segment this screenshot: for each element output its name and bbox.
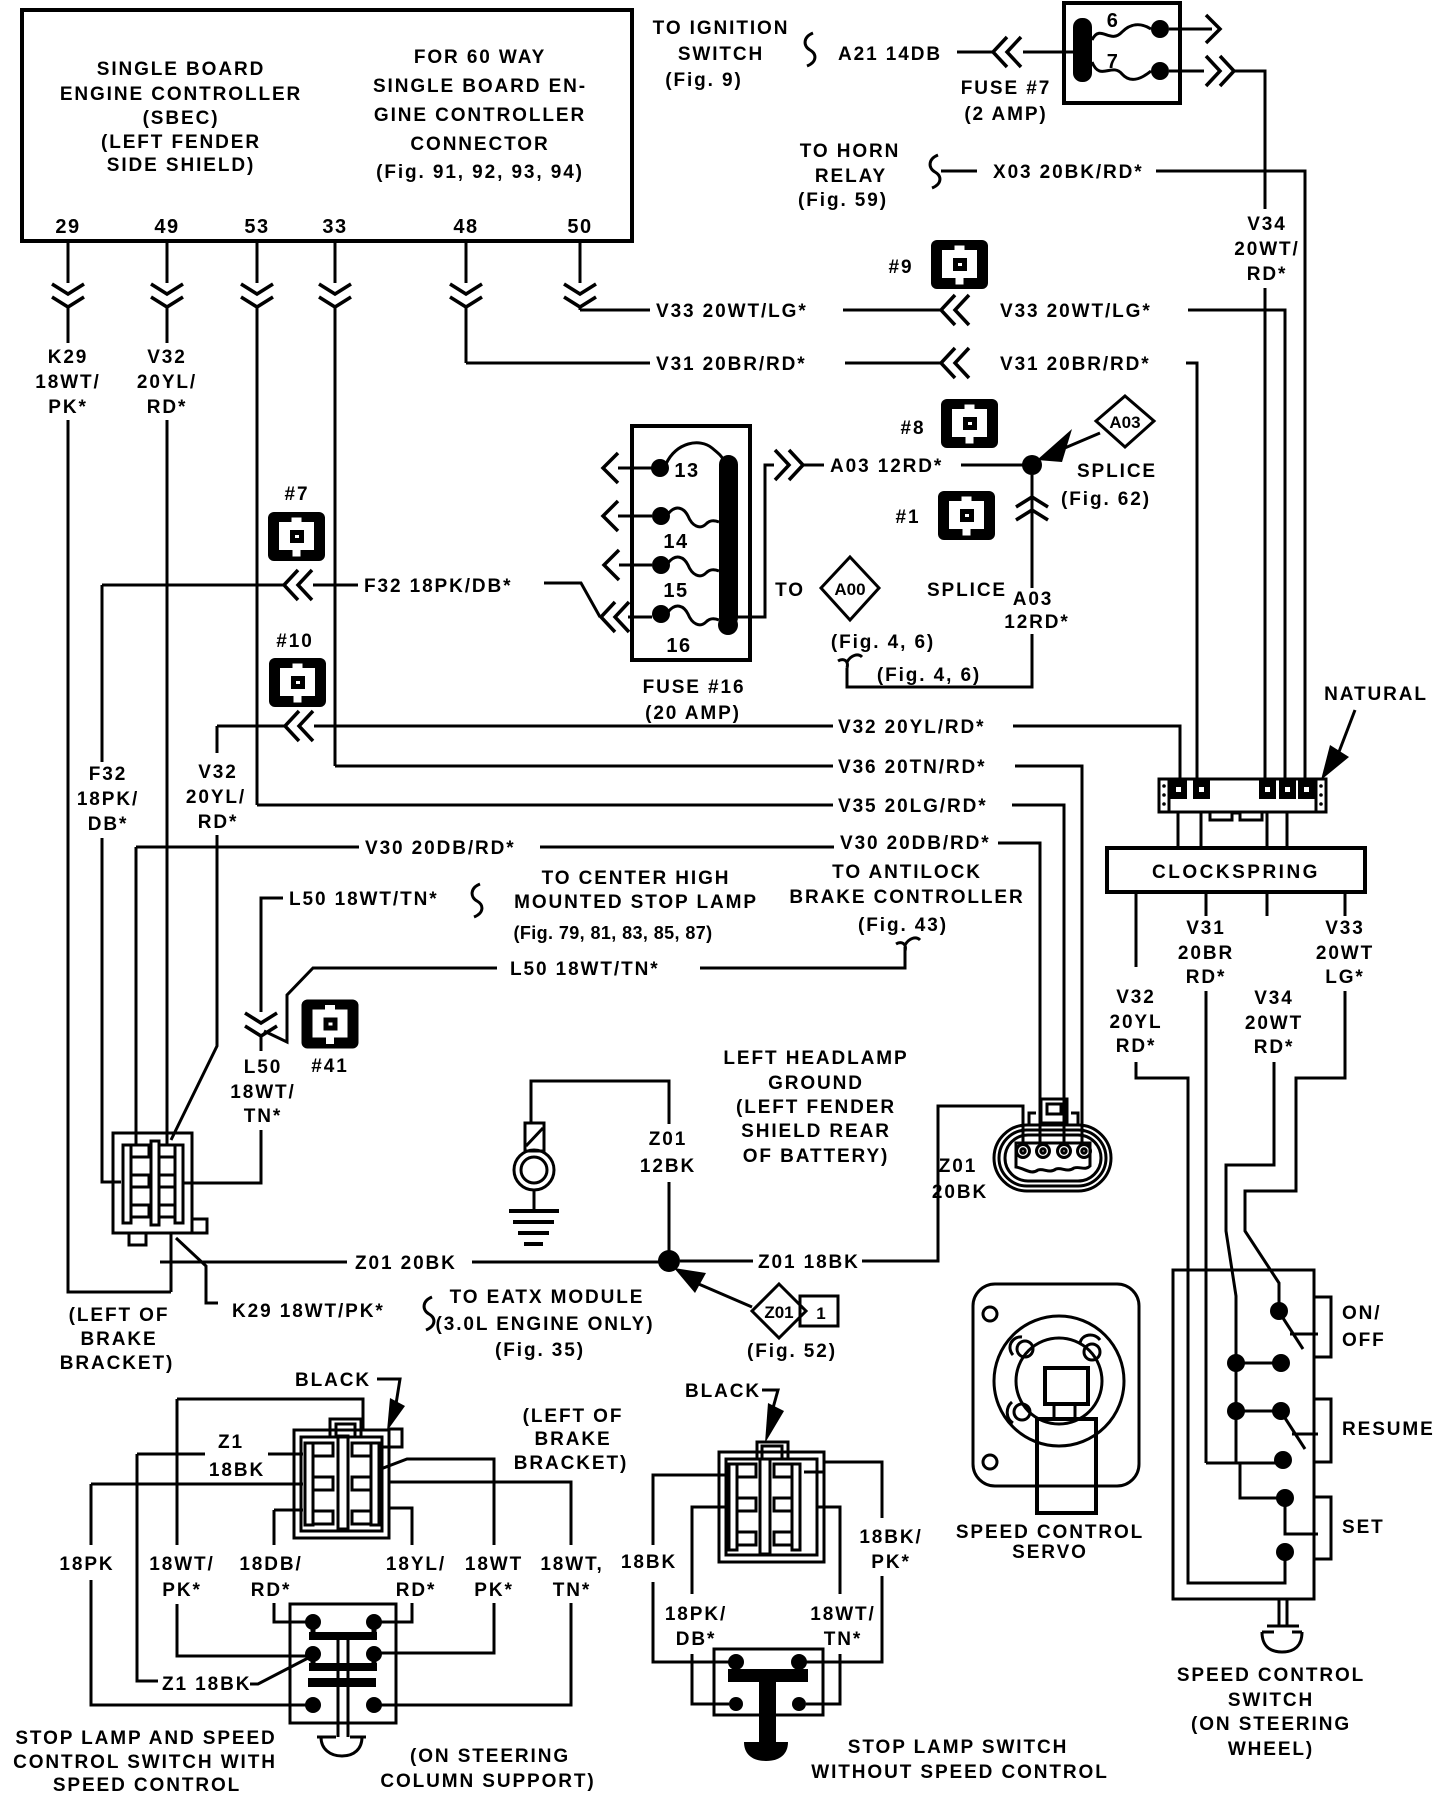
wire connector bottom stem (170, 1233, 173, 1292)
label 18WT/PK* (149, 1554, 214, 1601)
CLOCKSPRING box (1107, 848, 1365, 892)
svg-text:53: 53 (244, 216, 269, 238)
switch RESUME lower contact (1274, 1451, 1292, 1469)
connector chevron A21 (993, 37, 1021, 67)
wire 18YL/RD* lower (381, 1603, 412, 1622)
label FUSE #16 (20 AMP) (643, 677, 746, 724)
wire 18PK lower (91, 1580, 306, 1705)
wire Z1 18BK to connector (268, 1453, 303, 1456)
svg-text:V34: V34 (1247, 214, 1287, 235)
wire break squiggle fig43 (896, 938, 920, 951)
svg-text:18WT/: 18WT/ (149, 1554, 214, 1575)
svg-text:20YL: 20YL (1109, 1012, 1162, 1033)
ground terminal G1 (514, 1123, 554, 1211)
chevron pin13 (603, 453, 618, 483)
svg-text:20WT/: 20WT/ (1234, 239, 1299, 260)
wire 18DB/RD* lower (274, 1603, 306, 1622)
stop lamp switch contacts box B (714, 1649, 823, 1761)
wire SET (1285, 1505, 1318, 1534)
svg-text:#9: #9 (889, 257, 914, 278)
svg-text:20WT: 20WT (1245, 1013, 1303, 1034)
grommet #9 (889, 240, 988, 289)
svg-text:BRAKE CONTROLLER: BRAKE CONTROLLER (789, 887, 1024, 908)
label V32 20YL/RD* vertical (186, 762, 246, 833)
svg-text:#7: #7 (285, 484, 310, 505)
svg-text:(Fig. 4, 6): (Fig. 4, 6) (877, 665, 981, 686)
svg-text:(LEFT OF: (LEFT OF (69, 1305, 170, 1326)
svg-text:(LEFT FENDER: (LEFT FENDER (736, 1097, 896, 1118)
switch ON/OFF fixed (1290, 1333, 1318, 1336)
label V32 20YL RD* (1109, 987, 1162, 1057)
wire row1 (1236, 1362, 1281, 1365)
wire 18WT/PK* lower (177, 1604, 306, 1656)
switch stem (1267, 1599, 1299, 1626)
wire K29 leader diagonal (176, 1238, 218, 1303)
svg-text:Z01 20BK: Z01 20BK (355, 1253, 457, 1274)
svg-text:#10: #10 (276, 631, 313, 652)
connector chevron up on A03 vertical (1016, 497, 1048, 520)
label Z01 20BK vertical (932, 1156, 988, 1203)
wire Z1 18BK left (137, 1453, 205, 1456)
svg-text:12BK: 12BK (640, 1156, 696, 1177)
svg-text:A03: A03 (1013, 589, 1054, 610)
svg-text:18PK/: 18PK/ (77, 789, 139, 810)
svg-text:20WT: 20WT (1316, 943, 1374, 964)
splice Z01 dot (658, 1250, 680, 1272)
wire A21 to fuse box (1023, 51, 1074, 54)
svg-text:(ON STEERING: (ON STEERING (1191, 1714, 1351, 1735)
svg-text:PK*: PK* (48, 397, 88, 418)
wire top of connector A (177, 1399, 363, 1429)
svg-text:L50 18WT/TN*: L50 18WT/TN* (289, 889, 439, 910)
svg-text:18WT,: 18WT, (540, 1554, 603, 1575)
svg-text:V32: V32 (198, 762, 238, 783)
wire V35 run right (1012, 805, 1064, 1142)
svg-text:18BK: 18BK (209, 1460, 265, 1481)
wire pin33 stub (334, 241, 337, 283)
wire pin14 left (618, 515, 652, 518)
connector chevron pin48 (450, 284, 482, 307)
wire 18BK middle (653, 1475, 729, 1545)
svg-text:18DB/: 18DB/ (239, 1554, 302, 1575)
wire L50 to antilock (700, 947, 905, 968)
svg-text:LG*: LG* (1325, 967, 1364, 988)
svg-text:(3.0L ENGINE ONLY): (3.0L ENGINE ONLY) (436, 1314, 655, 1335)
svg-text:18PK: 18PK (59, 1554, 114, 1575)
svg-text:15: 15 (663, 580, 688, 602)
svg-text:X03 20BK/RD*: X03 20BK/RD* (993, 162, 1144, 183)
switch row2 contacts (1227, 1402, 1245, 1420)
connector chevron F32 (284, 570, 312, 600)
wire break squiggle stop lamp (472, 884, 482, 917)
svg-text:33: 33 (322, 216, 347, 238)
wire V36 run (335, 765, 833, 768)
wire F32 chevron to pin33 junction (313, 584, 358, 587)
wire V35 run (257, 804, 833, 807)
wire V32 vertical lower (171, 835, 217, 1140)
wire Z01 to splice (668, 1182, 671, 1251)
fuse 14 element (668, 508, 719, 527)
svg-text:(Fig. 43): (Fig. 43) (858, 915, 948, 936)
svg-text:20YL/: 20YL/ (137, 372, 197, 393)
wire V32 run (314, 725, 833, 728)
svg-text:V31 20BR/RD*: V31 20BR/RD* (1000, 354, 1151, 375)
arrow A03 diamond to splice (1060, 433, 1100, 450)
svg-text:V33: V33 (1325, 918, 1365, 939)
wire V34 to switch (1226, 1062, 1274, 1363)
svg-text:L50: L50 (244, 1057, 282, 1078)
wire pin29 to label (67, 308, 70, 343)
fuse 15 element (668, 557, 719, 576)
svg-text:V34: V34 (1254, 988, 1294, 1009)
wire to SET (1240, 1463, 1278, 1498)
wire V36 run right (1015, 766, 1082, 1142)
svg-text:#41: #41 (311, 1056, 348, 1077)
wire 18WT PK* (378, 1459, 494, 1545)
label ON/OFF (1342, 1303, 1386, 1351)
wire Z01 12BK loop (531, 1081, 669, 1124)
chevron pin15 (604, 550, 619, 580)
svg-text:18YL/: 18YL/ (386, 1554, 446, 1575)
svg-text:FOR 60 WAY: FOR 60 WAY (414, 47, 546, 68)
svg-text:RD*: RD* (1116, 1036, 1157, 1057)
switch SET contact (1276, 1489, 1294, 1507)
svg-text:(Fig. 59): (Fig. 59) (798, 190, 888, 211)
wire Z01 18BK right (862, 1106, 1023, 1261)
svg-text:(Fig. 52): (Fig. 52) (747, 1341, 837, 1362)
wire V31 left (466, 362, 650, 365)
fuse element 7 (1092, 62, 1151, 79)
wire V33 mid (843, 309, 941, 312)
svg-text:(Fig. 4, 6): (Fig. 4, 6) (831, 632, 935, 653)
label STOP LAMP AND SPEED CONTROL SWITCH WITH SPEED CONTROL (13, 1728, 277, 1794)
svg-text:CONNECTOR: CONNECTOR (410, 134, 549, 155)
svg-text:A03 12RD*: A03 12RD* (830, 456, 943, 477)
wire pin13 left (618, 467, 652, 470)
wire F32 diagonal to pin16 (544, 583, 600, 617)
pin 14 (652, 507, 670, 525)
svg-text:RESUME: RESUME (1342, 1419, 1435, 1440)
wire Z01 20BK right (472, 1261, 659, 1264)
svg-text:NATURAL: NATURAL (1324, 684, 1428, 705)
fuse 16 element (668, 606, 719, 625)
svg-text:BRAKE: BRAKE (80, 1329, 157, 1350)
wire V32 below clockspring (1135, 892, 1138, 967)
svg-text:TO EATX MODULE: TO EATX MODULE (450, 1287, 645, 1308)
connector chevron V32 run (285, 711, 313, 741)
SBEC box U1 (22, 10, 632, 241)
connector chevron pin49 (151, 284, 183, 307)
wire V32 run right (1013, 726, 1180, 780)
wire V33 left (580, 309, 650, 312)
svg-text:Z1: Z1 (218, 1432, 244, 1453)
wire 18PK horizontal (91, 1483, 303, 1486)
clockspring connector (1159, 779, 1326, 820)
svg-text:V32 20YL/RD*: V32 20YL/RD* (838, 717, 985, 738)
wire V32 vertical to stop lamp connector (166, 420, 169, 1144)
svg-text:(Fig. 35): (Fig. 35) (495, 1340, 585, 1361)
svg-text:20BR: 20BR (1178, 943, 1234, 964)
svg-text:SPLICE: SPLICE (1077, 461, 1157, 482)
label Z01 12BK (640, 1129, 696, 1177)
fuse element 6 (1092, 25, 1151, 40)
svg-text:13: 13 (674, 460, 699, 482)
svg-text:STOP LAMP AND SPEED: STOP LAMP AND SPEED (15, 1728, 276, 1749)
wire pin15 left (619, 564, 652, 567)
wire Z1 18BK leader (250, 1657, 310, 1684)
wire pin50 stub (579, 241, 582, 283)
svg-text:SWITCH: SWITCH (1228, 1690, 1314, 1711)
wire Z01 18BK (680, 1260, 753, 1263)
svg-text:6: 6 (1107, 10, 1120, 32)
wire V30 right (998, 843, 1040, 1142)
label TO A00 SPLICE (775, 557, 1007, 620)
wire row1 to row2 (1235, 1363, 1238, 1411)
stop lamp switch connector (no speed control) (719, 1442, 824, 1562)
wire V34 below clockspring (1266, 892, 1269, 916)
svg-text:V31 20BR/RD*: V31 20BR/RD* (656, 354, 807, 375)
grommet #7 (268, 484, 325, 561)
svg-text:48: 48 (453, 216, 478, 238)
svg-text:V32: V32 (147, 347, 187, 368)
svg-text:TO HORN: TO HORN (800, 141, 901, 162)
svg-text:Z01: Z01 (649, 1129, 687, 1150)
wire V30 mid (540, 846, 834, 849)
wire 18PK/DB* (692, 1507, 729, 1594)
svg-text:TN*: TN* (553, 1580, 591, 1601)
svg-text:OF BATTERY): OF BATTERY) (743, 1146, 890, 1167)
wire A21 (957, 51, 995, 54)
svg-text:RD*: RD* (251, 1580, 292, 1601)
svg-text:TO IGNITION: TO IGNITION (653, 18, 790, 39)
svg-text:TN*: TN* (824, 1629, 862, 1650)
svg-text:18WT/: 18WT/ (810, 1604, 875, 1625)
svg-text:OFF: OFF (1342, 1330, 1386, 1351)
wire fuse7 output (1169, 70, 1204, 73)
label V33 20WT LG* (1316, 918, 1374, 988)
svg-text:(LEFT FENDER: (LEFT FENDER (101, 132, 261, 153)
label V32 20YL/RD* (137, 347, 197, 418)
wire V31 below clockspring (1205, 892, 1208, 916)
label L50 18WT/TN* vertical (230, 1057, 295, 1127)
wire Z1 18BK vertical (137, 1454, 158, 1681)
wire pin53 stub (256, 241, 259, 283)
svg-text:SPLICE: SPLICE (927, 580, 1007, 601)
svg-text:18BK: 18BK (621, 1552, 677, 1573)
splice S1 dot (1022, 455, 1042, 475)
svg-text:20YL/: 20YL/ (186, 787, 246, 808)
svg-text:(SBEC): (SBEC) (143, 108, 220, 129)
svg-text:V33 20WT/LG*: V33 20WT/LG* (656, 301, 808, 322)
wire 18PK/DB* lower (692, 1654, 729, 1704)
svg-text:SET: SET (1342, 1517, 1385, 1538)
label 18WT/TN* middle (810, 1604, 875, 1650)
wire V30 left corner (136, 846, 359, 849)
svg-text:CLOCKSPRING: CLOCKSPRING (1152, 862, 1320, 883)
connector chevron A03 (775, 450, 803, 480)
connector chevron pin50 (564, 284, 596, 307)
svg-text:CONTROL SWITCH WITH: CONTROL SWITCH WITH (13, 1752, 277, 1773)
F32 vertical wire (101, 585, 104, 762)
wire pin53 down to V35 run (256, 308, 259, 805)
wire A03 vertical (1031, 475, 1034, 588)
svg-text:TO: TO (775, 580, 805, 601)
svg-text:(20 AMP): (20 AMP) (645, 703, 741, 724)
chevron pin14 (603, 501, 618, 531)
svg-text:WITHOUT SPEED CONTROL: WITHOUT SPEED CONTROL (811, 1762, 1108, 1783)
svg-text:(ON STEERING: (ON STEERING (410, 1746, 570, 1767)
svg-text:SPEED CONTROL: SPEED CONTROL (1177, 1665, 1365, 1686)
label V34 20WT/RD* (1234, 214, 1299, 285)
svg-text:GROUND: GROUND (768, 1073, 864, 1094)
svg-text:16: 16 (666, 635, 691, 657)
speed control switch box (1173, 1270, 1331, 1599)
wire pin49 to label (166, 308, 169, 343)
svg-text:V32: V32 (1116, 987, 1156, 1008)
connector chevron pin29 (52, 284, 84, 307)
svg-text:RD*: RD* (1254, 1037, 1295, 1058)
svg-text:BRACKET): BRACKET) (60, 1353, 174, 1374)
svg-text:Z1 18BK: Z1 18BK (162, 1674, 251, 1695)
TO HORN RELAY label (798, 141, 900, 211)
switch ON/OFF blade (1283, 1318, 1303, 1349)
wire 18WT/TN* lower (381, 1603, 571, 1705)
label 18DB/RD* (239, 1554, 302, 1601)
svg-text:F32 18PK/DB*: F32 18PK/DB* (364, 576, 512, 597)
svg-text:K29: K29 (48, 347, 89, 368)
label TO CENTER HIGH MOUNTED STOP LAMP (513, 868, 757, 943)
svg-text:DB*: DB* (676, 1629, 717, 1650)
svg-text:V35 20LG/RD*: V35 20LG/RD* (838, 796, 988, 817)
LEFT HEADLAMP GROUND label (723, 1048, 908, 1167)
wire V33 right (1188, 310, 1285, 780)
svg-text:COLUMN SUPPORT): COLUMN SUPPORT) (380, 1771, 595, 1792)
svg-text:PK*: PK* (871, 1552, 911, 1573)
wire pin48 stub (465, 241, 468, 283)
svg-text:BLACK: BLACK (685, 1381, 761, 1402)
svg-text:18PK/: 18PK/ (665, 1604, 727, 1625)
wire clockspring pin2 (1200, 812, 1203, 848)
fuse 13 element (666, 443, 724, 464)
wire V34 down to clockspring (1264, 288, 1267, 780)
svg-text:1: 1 (816, 1304, 825, 1323)
svg-text:A03: A03 (1109, 413, 1140, 432)
svg-text:(Fig. 62): (Fig. 62) (1061, 489, 1151, 510)
speed control servo (956, 1284, 1144, 1563)
label (LEFT OF BRAKE BRACKET) right (514, 1406, 628, 1474)
wire V32 to switch (1136, 1062, 1285, 1583)
pin 13 (651, 459, 669, 477)
wire 18BK middle lower (653, 1582, 729, 1662)
svg-text:ON/: ON/ (1342, 1303, 1381, 1324)
svg-text:18WT: 18WT (465, 1554, 523, 1575)
label SPEED CONTROL SWITCH (ON STEERING WHEEL) (1177, 1665, 1365, 1760)
svg-text:K29 18WT/PK*: K29 18WT/PK* (232, 1301, 385, 1322)
wire A03 to splice (961, 464, 1023, 467)
label STOP LAMP SWITCH WITHOUT SPEED CONTROL (811, 1737, 1108, 1783)
wire fuse6 output (1169, 28, 1212, 31)
svg-text:GINE CONTROLLER: GINE CONTROLLER (374, 105, 586, 126)
wire V31 to switch (1205, 991, 1208, 1463)
wire 18WT/TN* middle (817, 1507, 840, 1594)
pin 16 (652, 605, 670, 623)
arrow fuse6 (1206, 15, 1220, 43)
svg-text:Z01: Z01 (939, 1156, 977, 1177)
svg-text:V36 20TN/RD*: V36 20TN/RD* (838, 757, 986, 778)
svg-text:12RD*: 12RD* (1004, 612, 1069, 633)
connector chevron fuse7 (1206, 56, 1234, 86)
svg-text:BLACK: BLACK (295, 1370, 371, 1391)
grommet #10 (269, 631, 326, 707)
wire break squiggle fig46 (838, 655, 862, 668)
svg-text:(2 AMP): (2 AMP) (964, 104, 1047, 125)
connector chevron V31 (941, 348, 969, 378)
wire V32 left corner (217, 725, 284, 728)
label (ON STEERING COLUMN SUPPORT) (380, 1746, 595, 1792)
svg-text:V30 20DB/RD*: V30 20DB/RD* (840, 833, 991, 854)
wire break squiggle ignition (805, 33, 815, 66)
label F32 18PK/DB* vertical (77, 764, 139, 835)
grommet #41 (302, 1000, 359, 1078)
svg-text:RD*: RD* (198, 812, 239, 833)
wire clockspring pin4 (1286, 812, 1289, 848)
label (LEFT OF BRAKE BRACKET) left (60, 1305, 174, 1374)
stop lamp switch connector (brake bracket) (113, 1133, 207, 1245)
arrow BLACK left (377, 1379, 400, 1404)
arrow BLACK middle (762, 1390, 778, 1408)
wire L50 second left (264, 968, 497, 1042)
wire 18PK vertical (90, 1484, 93, 1545)
label V31 20BR RD* (1178, 918, 1234, 988)
svg-text:20BK: 20BK (932, 1182, 988, 1203)
wire L50 below chevron (260, 1037, 263, 1051)
connector chevron pin33 (319, 284, 351, 307)
svg-text:V30 20DB/RD*: V30 20DB/RD* (365, 838, 516, 859)
svg-text:RD*: RD* (147, 397, 188, 418)
svg-text:SHIELD REAR: SHIELD REAR (741, 1121, 891, 1142)
wire V31 right (1186, 363, 1197, 780)
label V34 20WT RD* (1245, 988, 1303, 1058)
wire pin16 left (628, 616, 652, 619)
svg-text:PK*: PK* (474, 1580, 514, 1601)
wire X03 to right corner (1156, 171, 1305, 780)
label 18BK/PK* (859, 1527, 922, 1573)
svg-text:(Fig. 9): (Fig. 9) (665, 70, 742, 91)
svg-text:V31: V31 (1186, 918, 1226, 939)
wire 18WT/TN* middle lower (806, 1654, 840, 1704)
svg-text:SWITCH: SWITCH (678, 44, 764, 65)
switch RESUME blade (1285, 1418, 1305, 1449)
label Z1 18BK (209, 1432, 265, 1481)
wire break squiggle horn (930, 155, 940, 188)
wire 18BK/PK* (824, 1462, 882, 1518)
wire K29 vertical (68, 420, 171, 1292)
switch RESUME fixed (1292, 1433, 1318, 1436)
wire pin29 stub (67, 241, 70, 283)
fuse #16 box (632, 426, 750, 660)
label FUSE #7 (2 AMP) (961, 78, 1051, 125)
ground symbol (509, 1211, 559, 1244)
svg-text:TN*: TN* (244, 1106, 282, 1127)
svg-text:FUSE #16: FUSE #16 (643, 677, 746, 698)
svg-text:MOUNTED STOP LAMP: MOUNTED STOP LAMP (514, 892, 758, 913)
svg-text:ENGINE CONTROLLER: ENGINE CONTROLLER (60, 84, 302, 105)
svg-text:V33 20WT/LG*: V33 20WT/LG* (1000, 301, 1152, 322)
arrow Z01 1 to splice (694, 1282, 752, 1307)
switch SET lower contact (1276, 1543, 1294, 1561)
switch ON/OFF contact (1270, 1302, 1288, 1320)
svg-text:DB*: DB* (88, 814, 129, 835)
